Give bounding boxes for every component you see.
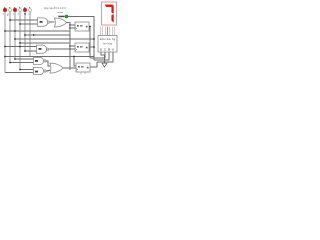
flip-flop U1 [75, 22, 89, 31]
flip-flop U2 [75, 43, 89, 52]
direction arrow near P1 [7, 14, 8, 15]
junction dot (5,56.5) [4, 56, 6, 58]
input pin P6 (low) [29, 7, 32, 12]
gate G1 label [40, 21, 43, 23]
chip output labels a-g [100, 37, 116, 41]
secondary label [58, 11, 64, 14]
wire row node R5 [5, 56, 94, 58]
wire FF2 output to hook [89, 46, 94, 48]
junction dot (15,31) [14, 30, 16, 32]
wire column 1 [4, 12, 6, 73]
gate G1 (AND with inverted output) [38, 18, 51, 26]
pin label under P2 [8, 13, 9, 16]
input pin P5 (high) [23, 7, 26, 12]
input pin P1 (high) [3, 7, 6, 12]
svg-text:Gray map 8=0,1,3,2,6,7: Gray map 8=0,1,3,2,6,7 [44, 6, 67, 10]
wire column 6 [29, 12, 31, 57]
junction dot (70,28) [69, 27, 71, 29]
chip input labels D C B A [100, 47, 114, 51]
junction dot (25,35) [24, 34, 26, 36]
wire column 5 [24, 12, 26, 51]
wire row node R1 [5, 30, 70, 32]
wire FF3 output to hook [90, 62, 97, 67]
pin label under P5 [24, 13, 26, 14]
pin stems [5, 10, 30, 13]
segment b (lit) [112, 5, 114, 13]
wire row to gate G4 input B [10, 62, 34, 64]
junction dot (20,69.5) [19, 69, 21, 71]
wire row to gate G5 input B [5, 72, 34, 74]
wire row node R4 [20, 42, 70, 44]
gate G3 label [39, 48, 42, 50]
pin label under P4 [18, 13, 19, 16]
wire row node R2 [25, 34, 70, 36]
gate G3 (AND with inverted output) [37, 45, 49, 53]
pin label under P6 [28, 13, 29, 16]
junction dot (10,20) [9, 19, 11, 21]
clock probe LED (green) [65, 15, 68, 18]
buffer glyph on row R2 [33, 34, 36, 36]
wire column 3 [14, 12, 16, 59]
junction dot (5,31) [4, 30, 6, 32]
7-segment display DS1 [102, 2, 117, 25]
input pin P2 (low) [9, 7, 12, 12]
flip-flop U3 [76, 63, 90, 72]
junction dot (15,39) [14, 38, 16, 40]
segment c (lit) [112, 14, 114, 22]
junction dot (10,62.5) [9, 62, 11, 64]
input pin P4 (low) [19, 7, 22, 12]
segment a (lit) [105, 5, 113, 7]
wire row to gate G3 input B [25, 50, 37, 52]
gate G5 label [35, 71, 38, 73]
wire FF2 input stub B [70, 48, 75, 50]
wire row node R3 [15, 38, 94, 40]
junction dot (5,46.5) [4, 46, 6, 48]
wire G6 output to FF3 [63, 67, 76, 69]
junction dot (20,46.5) [19, 46, 21, 48]
junction dot (74,56.5) [73, 56, 75, 58]
wire FF2 input stub A [70, 45, 75, 47]
junction dot (94,39) [93, 38, 95, 40]
wire row to gate G5 input A [20, 69, 34, 71]
svg-text:A: A [112, 47, 114, 51]
gate G4 (AND with inverted output) [34, 57, 47, 64]
junction dot FF1 out [89, 26, 91, 28]
wire column 4 [19, 12, 21, 70]
junction dot FF2 out [93, 46, 95, 48]
display pin wires [101, 27, 115, 36]
svg-text:C: C [104, 47, 106, 51]
junction dot (20,24) [19, 23, 21, 25]
wire column 2 [9, 12, 11, 63]
wire row to gate G4 input A [15, 58, 34, 60]
wire FF1 output [89, 27, 90, 59]
wire G2 output to FF column [67, 23, 71, 71]
clock label text [58, 16, 64, 18]
wire row to gate G1 input A [10, 19, 38, 21]
chip input pin D wire to ground [101, 52, 105, 63]
wire G3 output [50, 48, 71, 50]
junction dot (70,25) [69, 24, 71, 26]
svg-text:D: D [100, 47, 102, 51]
decoder chip U4 [98, 36, 117, 53]
chip input pin A hook [97, 52, 113, 62]
pin label under P3 [13, 13, 14, 16]
ground symbol [102, 63, 107, 67]
wire G1 output [50, 21, 54, 23]
junction dot (15,59) [14, 58, 16, 60]
gate G5 (AND with inverted output) [34, 67, 47, 74]
wire FF1 input stub A [70, 24, 75, 26]
junction dot (20,43) [19, 42, 21, 44]
wire row to gate G1 input B [20, 23, 38, 25]
input pin P3 (high) [13, 7, 16, 12]
gate G6 (OR) [50, 63, 63, 73]
junction dot (70,46) [69, 45, 71, 47]
junction dot (70,49) [69, 48, 71, 50]
wire row to gate G3 input A [5, 46, 37, 48]
pin label under P1 [3, 13, 4, 16]
chip input pin C hook [90, 52, 105, 58]
junction dot (25,51) [24, 50, 26, 52]
FF3 reset stub [81, 72, 85, 75]
wire FF1 input stub B [70, 27, 75, 29]
gate G2 (OR) [55, 18, 67, 27]
wire G5 output to G6 [46, 70, 50, 73]
wire clock net to right column [68, 17, 94, 61]
wire branch to FF3 [74, 57, 76, 67]
gate G4 label [35, 60, 38, 62]
wire G4 output to G6 [46, 61, 50, 66]
svg-text:B: B [108, 47, 110, 51]
chip input pin B hook [94, 52, 109, 60]
svg-text:hex7seg: hex7seg [103, 43, 113, 46]
